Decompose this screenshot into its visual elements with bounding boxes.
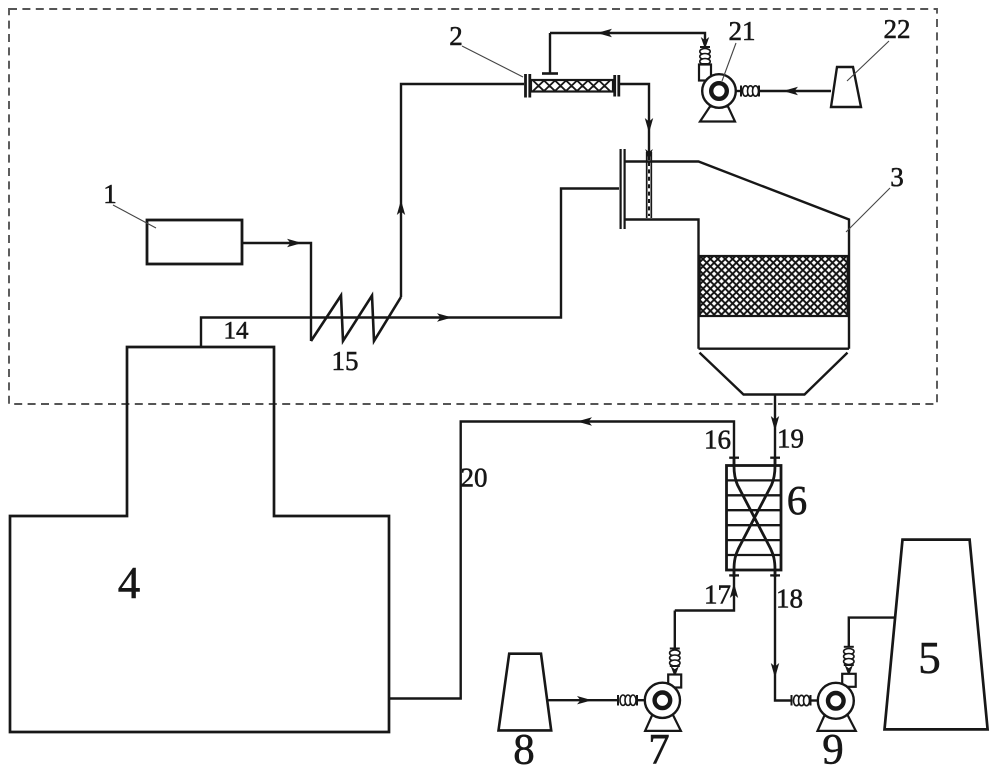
label 15 [332,346,359,376]
label 21 [722,16,756,81]
svg-text:15: 15 [332,346,359,376]
svg-text:22: 22 [884,14,911,44]
heat exchanger 6 [727,458,782,577]
label 18 [776,584,803,614]
label 9 [822,727,844,773]
wire tank1 output [242,239,311,341]
stack 5 [885,540,988,730]
svg-text:6: 6 [787,477,808,523]
svg-text:5: 5 [918,633,941,683]
return pipe 20 [389,417,734,698]
pipe 17 pump7 to exchanger [675,570,738,611]
label 6 [787,477,808,523]
svg-text:2: 2 [449,21,463,51]
label 4 [118,558,141,608]
vessel 3 body [626,162,850,349]
hopper 22 [831,67,861,107]
label 8 [513,727,535,773]
pipe 22 to pump 21 [759,87,831,95]
label 16 [704,425,731,455]
svg-text:16: 16 [704,425,731,455]
svg-text:1: 1 [103,179,117,209]
svg-text:8: 8 [513,727,535,773]
svg-text:19: 19 [777,424,804,454]
svg-text:20: 20 [461,463,488,493]
svg-text:18: 18 [776,584,803,614]
label 22 [847,14,911,81]
label 3 [846,162,904,232]
pump 9 riser to stack 5 [844,618,896,676]
svg-text:9: 9 [822,727,844,773]
svg-text:14: 14 [224,318,250,345]
riser pipe to mixer 2 [397,84,524,297]
pipe 18 into pump 9 [792,695,819,706]
svg-text:3: 3 [890,162,904,192]
pipe 14 from boiler to vessel [201,189,619,348]
pump 9 [818,674,856,731]
boiler 4 [10,347,389,732]
label 1 [103,179,156,228]
vessel 3 cone bottom [700,353,848,395]
dashed system boundary [9,9,937,404]
vessel 3 packing bed [700,256,848,316]
pipe mixer to vessel inlet [619,84,653,218]
vessel 3 inlet flange [621,149,625,229]
label 19 [777,424,804,454]
pipe hopper 8 to pump 7 [548,695,645,706]
pump 21 [699,37,759,122]
label 17 [704,580,731,610]
label 5 [918,633,941,683]
recirculation top pipe [550,29,705,40]
pump 7 [645,675,681,731]
svg-text:4: 4 [118,558,141,608]
static mixer 2 [526,33,619,98]
svg-text:7: 7 [648,727,670,773]
svg-text:21: 21 [729,16,756,46]
hopper 8 [499,654,552,731]
label 7 [648,727,670,773]
tank 1 [147,220,242,264]
label 20 [461,463,488,493]
heater zigzag 15 [311,296,401,342]
svg-text:17: 17 [704,580,731,610]
pipe 19 vessel to exchanger [771,395,779,466]
label 14 [224,318,250,345]
label 2 [449,21,523,77]
pump 7 riser [670,611,680,678]
pipe 18 exchanger to pump 9 [771,570,792,701]
